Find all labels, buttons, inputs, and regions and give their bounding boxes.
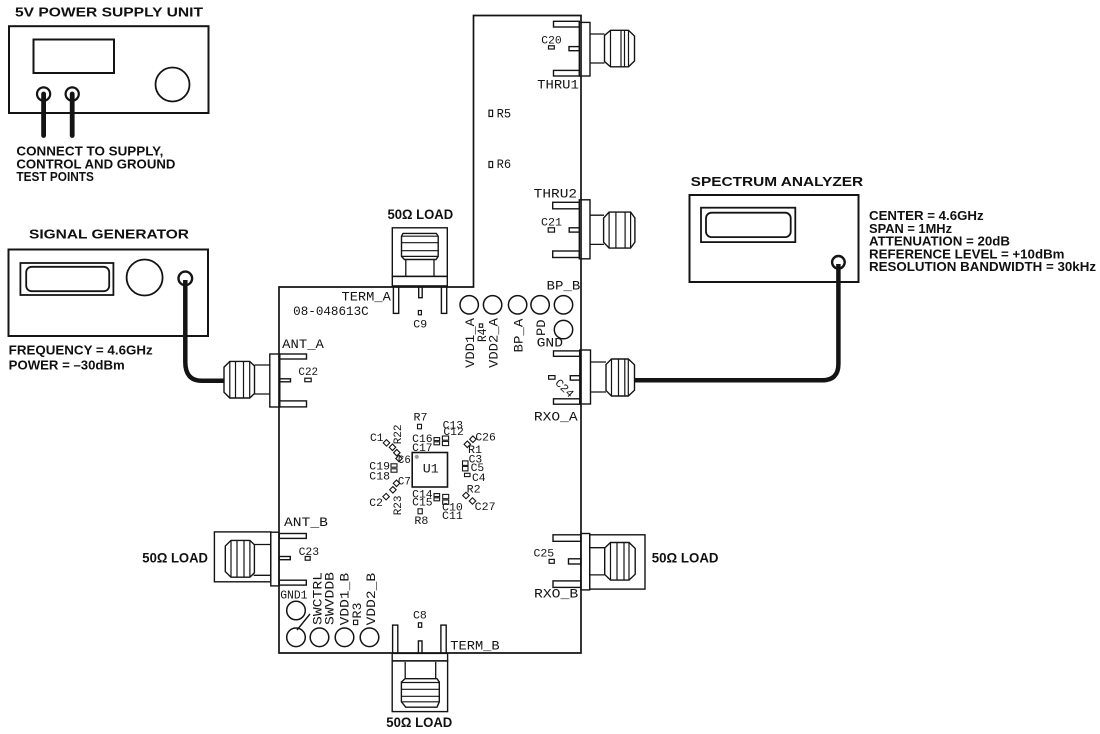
svg-text:R5: R5 bbox=[497, 108, 512, 122]
svg-text:08-048613C: 08-048613C bbox=[293, 305, 369, 319]
capacitor C3 bbox=[463, 455, 483, 467]
connector RXO_B with 50ohm load bbox=[553, 534, 645, 590]
supply lead wire 2 bbox=[70, 94, 75, 136]
svg-text:5V POWER SUPPLY UNIT: 5V POWER SUPPLY UNIT bbox=[15, 5, 203, 20]
svg-text:R22: R22 bbox=[393, 425, 405, 445]
connector TERM_A with 50ohm load bbox=[392, 228, 447, 314]
svg-text:C15: C15 bbox=[412, 498, 432, 510]
label SWVDDB bbox=[323, 572, 338, 625]
resistor R6 bbox=[489, 158, 511, 172]
capacitor C13 bbox=[443, 421, 463, 433]
power supply display bbox=[34, 40, 115, 74]
svg-text:50Ω LOAD: 50Ω LOAD bbox=[388, 206, 454, 222]
label 50ohm load bottom bbox=[386, 714, 452, 730]
capacitor C16 bbox=[412, 434, 448, 446]
svg-text:C4: C4 bbox=[472, 473, 486, 485]
test point VDD2_A bbox=[483, 296, 501, 314]
GND1 pointer line bbox=[297, 614, 310, 630]
svg-text:C27: C27 bbox=[475, 502, 496, 514]
coax cable signal generator to ANT_A bbox=[185, 280, 224, 381]
svg-text:R8: R8 bbox=[414, 516, 428, 528]
supply annotation bbox=[16, 144, 175, 185]
connector ANT_B with 50ohm load bbox=[214, 532, 306, 586]
svg-text:U1: U1 bbox=[423, 462, 439, 477]
label THRU1 bbox=[537, 78, 579, 93]
signal generator box bbox=[9, 250, 209, 337]
power supply terminal 2 bbox=[66, 87, 79, 100]
power supply unit box bbox=[9, 26, 209, 113]
svg-text:50Ω LOAD: 50Ω LOAD bbox=[142, 550, 208, 566]
label VDD2_A bbox=[486, 318, 501, 368]
power supply terminal 1 bbox=[37, 87, 50, 100]
spectrum analyzer input connector bbox=[832, 256, 845, 269]
svg-text:VDD2_B: VDD2_B bbox=[364, 573, 379, 626]
capacitor C7 bbox=[393, 477, 411, 489]
svg-text:RXO_B: RXO_B bbox=[534, 587, 578, 602]
capacitor C27 bbox=[475, 502, 496, 514]
svg-text:C18: C18 bbox=[369, 472, 390, 484]
label RXO_B bbox=[534, 587, 578, 602]
test point BP_A bbox=[508, 296, 526, 314]
label BP_B bbox=[547, 279, 581, 294]
evaluation board outline bbox=[279, 16, 581, 654]
svg-text:FREQUENCY = 4.6GHz: FREQUENCY = 4.6GHz bbox=[9, 343, 154, 358]
resistor R3 bbox=[351, 603, 365, 625]
capacitor C4 bbox=[465, 473, 487, 485]
capacitor C10 bbox=[442, 494, 463, 514]
capacitor C11 bbox=[442, 500, 463, 523]
capacitor C23 bbox=[299, 547, 320, 560]
resistor R8 bbox=[414, 509, 428, 528]
label SWCTRL bbox=[310, 572, 325, 625]
test point PD bbox=[531, 296, 549, 314]
label TERM_B bbox=[450, 639, 500, 654]
power supply knob bbox=[156, 68, 190, 102]
svg-text:ANT_B: ANT_B bbox=[284, 515, 328, 530]
supply lead wire 1 bbox=[41, 94, 46, 136]
svg-text:C1: C1 bbox=[370, 433, 384, 445]
svg-text:THRU1: THRU1 bbox=[537, 78, 579, 93]
test point GND bbox=[554, 320, 572, 338]
signal generator annotation bbox=[9, 343, 154, 373]
signal generator knob bbox=[127, 260, 163, 296]
label ANT_A bbox=[282, 337, 324, 352]
test point GND1 bbox=[287, 601, 306, 620]
capacitor C19 bbox=[369, 462, 397, 474]
signal generator display bbox=[20, 263, 113, 295]
svg-text:C23: C23 bbox=[299, 547, 320, 559]
signal generator title bbox=[29, 227, 190, 242]
resistor R7 bbox=[414, 413, 428, 429]
svg-text:GND: GND bbox=[537, 336, 564, 351]
svg-text:PD: PD bbox=[534, 319, 549, 336]
capacitor C26 bbox=[464, 433, 496, 448]
svg-text:ANT_A: ANT_A bbox=[282, 337, 324, 352]
label VDD2_B bbox=[364, 573, 379, 626]
test point VDD2_B circle bbox=[360, 628, 379, 647]
spectrum analyzer annotation bbox=[869, 208, 1097, 274]
label THRU2 bbox=[534, 186, 577, 201]
svg-text:50Ω LOAD: 50Ω LOAD bbox=[652, 550, 719, 566]
svg-text:C11: C11 bbox=[442, 511, 463, 523]
test point VDD1_B circle bbox=[335, 628, 354, 647]
capacitor C22 bbox=[298, 367, 318, 382]
connector ANT_A bbox=[224, 354, 307, 407]
label GND1 bbox=[280, 589, 307, 603]
power supply title bbox=[15, 5, 203, 20]
capacitor C20 bbox=[541, 35, 561, 49]
label GND bbox=[537, 336, 564, 351]
capacitor C15 bbox=[412, 498, 439, 510]
svg-text:RESOLUTION BANDWIDTH = 30kHz: RESOLUTION BANDWIDTH = 30kHz bbox=[869, 259, 1097, 274]
capacitor C18 bbox=[369, 469, 397, 484]
svg-text:THRU2: THRU2 bbox=[534, 186, 577, 201]
capacitor C1 bbox=[370, 433, 390, 446]
test point VDD1_A bbox=[460, 296, 478, 314]
capacitor C24 bbox=[549, 376, 576, 401]
svg-text:GND1: GND1 bbox=[280, 589, 307, 603]
connector RXO_A bbox=[554, 350, 635, 404]
spectrum analyzer title bbox=[691, 174, 864, 189]
resistor R4 bbox=[476, 324, 490, 342]
svg-text:SWVDDB: SWVDDB bbox=[323, 572, 338, 625]
svg-text:C22: C22 bbox=[298, 367, 318, 379]
label 50ohm load left bbox=[142, 550, 208, 566]
connector THRU1 bbox=[554, 21, 635, 76]
label BP_A bbox=[511, 318, 526, 352]
connector THRU2 bbox=[553, 200, 635, 259]
resistor R1 bbox=[468, 445, 482, 457]
label RXO_A bbox=[534, 409, 578, 424]
capacitor C17 bbox=[412, 441, 448, 455]
spectrum analyzer display bbox=[701, 208, 795, 242]
svg-text:C6: C6 bbox=[398, 455, 411, 467]
capacitor C6 bbox=[396, 455, 411, 467]
label TERM_A bbox=[342, 290, 392, 305]
capacitor C9 bbox=[413, 311, 427, 332]
svg-text:VDD2_A: VDD2_A bbox=[486, 318, 501, 368]
svg-text:C17: C17 bbox=[412, 443, 432, 455]
svg-text:R7: R7 bbox=[414, 413, 428, 425]
board ID 08-048613C bbox=[293, 305, 369, 319]
svg-text:C9: C9 bbox=[413, 320, 427, 332]
svg-text:C25: C25 bbox=[534, 549, 555, 561]
svg-text:C12: C12 bbox=[443, 427, 463, 439]
svg-text:C8: C8 bbox=[413, 611, 427, 623]
capacitor C14 bbox=[412, 490, 439, 502]
svg-text:BP_B: BP_B bbox=[547, 279, 581, 294]
label ANT_B bbox=[284, 515, 328, 530]
capacitor C5 bbox=[463, 463, 485, 475]
svg-text:BP_A: BP_A bbox=[511, 318, 526, 352]
svg-text:SIGNAL GENERATOR: SIGNAL GENERATOR bbox=[29, 227, 190, 242]
test point SWCTRL row circle 2 bbox=[310, 628, 329, 647]
svg-text:TERM_A: TERM_A bbox=[342, 290, 392, 305]
connector TERM_B with 50ohm load bbox=[392, 625, 447, 712]
label PD bbox=[534, 319, 549, 336]
label VDD1_B bbox=[338, 573, 353, 626]
capacitor C12 bbox=[443, 427, 463, 439]
svg-text:C7: C7 bbox=[398, 477, 411, 489]
capacitor C25 bbox=[534, 549, 555, 564]
svg-text:50Ω LOAD: 50Ω LOAD bbox=[386, 714, 452, 730]
capacitor C21 bbox=[541, 218, 562, 233]
svg-text:R23: R23 bbox=[393, 496, 405, 516]
signal generator output connector bbox=[179, 272, 193, 286]
label 50ohm load right bbox=[652, 550, 719, 566]
capacitor C2 bbox=[369, 493, 389, 510]
svg-text:R3: R3 bbox=[351, 603, 365, 619]
coax cable RXO_A to spectrum analyzer bbox=[635, 264, 839, 380]
svg-text:TEST POINTS: TEST POINTS bbox=[16, 169, 94, 184]
svg-text:RXO_A: RXO_A bbox=[534, 409, 578, 424]
svg-text:TERM_B: TERM_B bbox=[450, 639, 500, 654]
label VDD1_A bbox=[463, 318, 478, 368]
svg-text:R6: R6 bbox=[497, 158, 512, 172]
IC U1 bbox=[412, 453, 447, 488]
test point BP_B bbox=[554, 296, 572, 314]
spectrum analyzer box bbox=[690, 195, 859, 282]
capacitor C8 bbox=[413, 611, 427, 628]
label 50ohm load top bbox=[388, 206, 454, 222]
svg-text:C26: C26 bbox=[475, 433, 495, 445]
svg-text:C2: C2 bbox=[369, 498, 383, 510]
svg-text:POWER = –30dBm: POWER = –30dBm bbox=[9, 358, 125, 373]
resistor R5 bbox=[489, 108, 511, 122]
resistor R23 bbox=[390, 487, 405, 516]
test point SWCTRL row circle 1 bbox=[287, 628, 306, 647]
resistor R22 bbox=[389, 425, 405, 456]
svg-text:SPECTRUM ANALYZER: SPECTRUM ANALYZER bbox=[691, 174, 864, 189]
resistor R2 bbox=[463, 485, 481, 505]
